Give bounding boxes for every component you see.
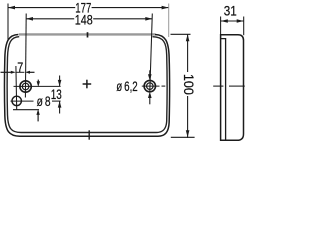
extra down arrow on upper line	[37, 80, 39, 83]
mounting hole left (double circle)	[20, 81, 31, 92]
lamp front view gray top edge	[19, 33, 156, 35]
dim 177 left extension line	[7, 4, 9, 42]
dim 13 bottom arrow	[59, 101, 61, 113]
dim 100 bottom extension line	[171, 136, 195, 138]
svg-text:100: 100	[181, 74, 197, 95]
svg-text:7: 7	[17, 59, 23, 75]
dim 7 right segment with arrow	[29, 71, 35, 73]
center cross mark	[83, 83, 92, 85]
13-dim bottom line segment right of oe8 text	[52, 100, 61, 102]
dim 100 top extension line	[171, 33, 191, 35]
lamp front view outer contour	[4, 34, 169, 136]
dim 177 right arrow	[162, 6, 169, 10]
dim 31 left extension line	[220, 17, 222, 35]
oe6,2 bottom arrow	[149, 98, 151, 105]
dim 148 left arrow	[26, 17, 33, 21]
dim 148 line	[26, 18, 74, 20]
bottom edge center tick	[88, 130, 90, 139]
top edge center tick	[87, 32, 89, 37]
left hole vertical centerline (also 148 left extension)	[24, 14, 27, 98]
dim 31 left arrow	[221, 19, 228, 23]
dim 31 right arrow	[237, 19, 244, 23]
side view lens parting line	[221, 39, 226, 141]
lamp front view inner lens contour	[7, 37, 167, 133]
dim 148 right arrow	[145, 17, 152, 21]
side view outer contour	[221, 35, 244, 141]
dim 177 line	[8, 7, 75, 9]
oe6,2 top arrow	[149, 70, 151, 75]
dim 177 left arrow	[8, 6, 15, 10]
lower reference line	[13, 109, 39, 111]
svg-text:ø 8: ø 8	[37, 93, 51, 109]
lower hole horizontal centerline	[11, 100, 34, 102]
cable hole lower-left (single circle)	[12, 96, 21, 105]
dim 177 right extension line (gray)	[168, 4, 170, 38]
lower hole slanted vertical centerline (7-dim left extension)	[15, 66, 18, 110]
right hole slanted centerline (148 right extension)	[150, 14, 153, 92]
dim 7 middle segment under text	[16, 71, 25, 73]
right hole horizontal centerline / leader	[142, 85, 160, 87]
dim 100 bottom arrow	[186, 130, 190, 137]
extra up arrow on lower reference line	[37, 115, 39, 122]
svg-text:148: 148	[75, 12, 93, 28]
dim 7 line left segment with arrow	[1, 71, 12, 73]
dim 100 top arrow	[186, 34, 190, 41]
dim 13 top arrow	[59, 76, 61, 87]
left hole horizontal centerline merged with 13-dim top line	[14, 85, 61, 87]
svg-text:13: 13	[51, 86, 62, 102]
svg-text:ø 6,2: ø 6,2	[116, 78, 138, 94]
mounting hole right (double circle)	[144, 80, 155, 91]
dim 31 right extension line	[243, 17, 245, 36]
side view hole centerline segment right	[229, 85, 245, 87]
dim 100 line	[187, 34, 189, 72]
side view hole centerline segment left	[213, 85, 223, 87]
svg-text:31: 31	[224, 3, 237, 19]
dim 31 line	[221, 20, 244, 22]
